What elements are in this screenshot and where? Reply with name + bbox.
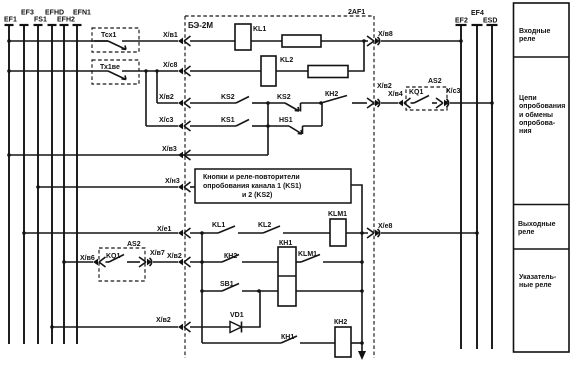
svg-text:Х/в2: Х/в2 [377,83,392,90]
row6 wire from FS1 [36,185,178,189]
switch Tx1ve dashed box [92,60,178,84]
connector X/v3 [162,146,191,160]
row4 wire [146,125,178,127]
svg-text:EF3: EF3 [21,10,34,17]
svg-text:Х/в2: Х/в2 [156,317,171,324]
svg-text:KL1: KL1 [212,222,225,229]
connector X/c8 [163,62,191,76]
wire to ESD [450,101,494,105]
bus FS1 [34,17,47,345]
junction row4 [266,124,270,128]
wire KL1 to R1 [251,40,282,42]
svg-text:Тх1ве: Тх1ве [100,64,120,71]
connector X/v2 row3 [159,94,191,108]
svg-text:AS2: AS2 [127,241,141,248]
connector X/v2 row10 [156,317,191,332]
row9 contact SB1 [200,281,278,293]
bus EF2 [455,17,468,349]
svg-text:ния: ния [519,128,532,135]
contact KH2 row8 [222,253,278,262]
wire to KS1 [190,125,236,127]
wire to node [190,260,222,264]
svg-text:KL1: KL1 [253,26,266,33]
note box buttons and repeaters [195,169,351,203]
svg-text:Х/в7: Х/в7 [150,250,165,257]
row7 wire from EF3 [22,231,178,235]
svg-text:EFN1: EFN1 [73,10,91,17]
svg-text:Х/в2: Х/в2 [167,253,182,260]
svg-text:реле: реле [518,229,535,236]
wire row2 to KL2 [190,70,261,72]
svg-text:Х/в6: Х/в6 [80,255,95,262]
svg-text:AS2: AS2 [428,78,442,85]
relay coil KL1 [235,24,266,50]
bus EFN1 [73,10,92,345]
block BE-2M dashed border [185,16,374,358]
svg-text:2AF1: 2AF1 [348,9,365,16]
svg-text:KL2: KL2 [280,57,293,64]
wire KLM1 to connector [346,231,368,235]
svg-text:Х/е8: Х/е8 [378,223,393,230]
contact KQ1 right [409,89,437,103]
bus EF3 [20,10,34,345]
svg-text:КН2: КН2 [334,319,347,326]
svg-text:EF2: EF2 [455,17,468,24]
wire to node [190,231,218,235]
connector X/v2 exit row3 [367,83,392,108]
connector X/v1 [163,32,191,46]
connector X/v7 [139,250,165,267]
wire to EF4 [381,231,479,235]
connector X/n3 [165,178,191,192]
wire to border connector [153,261,178,263]
wire KH2 coil to down bus [351,341,364,345]
svg-text:Входные: Входные [519,28,551,35]
wire KL2 to R2 [276,70,308,72]
svg-text:FS1: FS1 [34,17,47,24]
relay coil KH2 [334,319,351,357]
svg-text:Цепи: Цепи [519,95,537,102]
bus EFH2 [57,17,75,345]
relay coil KLM1 [328,211,347,246]
svg-text:Х/н3: Х/н3 [165,178,180,185]
svg-text:опробования канала 1 (KS1): опробования канала 1 (KS1) [203,182,301,190]
svg-text:КН1: КН1 [279,240,292,247]
vertical from row2 to row3 [156,71,158,103]
resistor R1 [282,35,321,47]
row11 wire to KH1 contact [202,342,281,344]
vertical from row2 to row4 [145,71,147,126]
svg-text:Указатель-: Указатель- [519,274,557,281]
bus EF1 [4,17,17,345]
svg-text:опробования: опробования [519,102,565,110]
wire VD1 up to SB1 row [242,291,261,327]
svg-text:KL2: KL2 [258,222,271,229]
row2 wire from EF1 [7,69,108,73]
svg-text:Х/в4: Х/в4 [388,91,403,98]
wire to X/v4 [381,102,398,104]
svg-text:EFH2: EFH2 [57,17,75,24]
resistor R2 [308,66,348,78]
svg-text:KQ1: KQ1 [409,89,424,96]
svg-text:EF4: EF4 [471,10,484,17]
svg-text:KLM1: KLM1 [328,211,347,218]
svg-text:и обмены: и обмены [519,111,553,119]
bus ESD [483,17,498,349]
bus EF4 [471,10,484,349]
svg-text:KS1: KS1 [221,117,235,124]
contact KS2 second [268,94,321,112]
arrow down [358,351,366,360]
block AS2 right dashed box [406,78,447,110]
svg-text:Х/с3: Х/с3 [446,88,461,95]
wire to KS2 [190,102,236,104]
svg-text:Х/в8: Х/в8 [378,31,393,38]
connector X/e1 [157,226,191,238]
svg-text:опробова-: опробова- [519,119,556,127]
wire HS1 up to row3 [321,103,323,126]
svg-text:ные реле: ные реле [519,282,552,289]
connector X/v6 [80,255,106,267]
vertical feed line left [201,233,203,343]
wire to EF2 [381,39,463,43]
row1 wire from EF1 [7,39,108,43]
contact KQ1 left [106,253,141,262]
wire row1 to KL1 [190,40,235,42]
connector X/c3 [436,88,461,108]
wire to note box [190,186,195,188]
svg-text:EF1: EF1 [4,17,17,24]
node B junction [319,101,323,105]
row3 wire [157,102,178,104]
svg-text:ESD: ESD [483,17,497,24]
contact HS1 [268,117,322,134]
contact KL1 [212,222,263,233]
svg-text:Кнопки и реле-повторители: Кнопки и реле-повторители [203,174,300,181]
svg-text:БЭ-2М: БЭ-2М [188,21,213,30]
wire R1 to connector [321,39,368,42]
relay coil KH1 two sections [278,240,296,306]
row10 wire from EFHD [50,325,178,329]
row8 wire from EFH2 [62,260,93,264]
svg-text:Х/с3: Х/с3 [159,117,174,124]
contact KS2 first [221,94,268,103]
svg-text:Тсх1: Тсх1 [101,32,117,39]
svg-text:Х/с8: Х/с8 [163,62,178,69]
svg-text:Выходные: Выходные [518,221,556,228]
svg-text:КН2: КН2 [325,91,338,98]
contact KS1 [221,117,268,126]
wire R2 up to row1 [348,41,364,71]
switch Tcx1 dashed box [92,28,178,52]
contact KH1 [281,334,335,343]
svg-text:реле: реле [519,36,536,43]
svg-text:KS2: KS2 [221,94,235,101]
connector X/e8 [367,223,393,238]
wire to VD1 [190,326,230,328]
contact KLM1 [296,251,364,264]
block AS2 left dashed box [99,241,145,281]
connector X/v4 [388,91,411,108]
svg-text:Х/в1: Х/в1 [163,32,178,39]
svg-text:EFHD: EFHD [45,10,64,17]
diode VD1 [230,312,244,333]
contact KL2 [258,222,330,233]
wire note box to down bus [351,185,362,352]
svg-text:Х/е1: Х/е1 [157,226,172,233]
row5 wire from EF1 [7,153,268,157]
vertical node A row3-row5 [267,103,269,155]
junction row2 branches [144,69,158,72]
svg-text:НS1: НS1 [279,117,293,124]
connector X/c3 row4 [159,117,191,131]
svg-text:Х/в3: Х/в3 [162,146,177,153]
node row3/row4 junction [266,101,270,105]
right legend column [514,3,570,352]
relay coil KL2 [261,56,293,86]
svg-text:и 2 (KS2): и 2 (KS2) [242,192,272,199]
wire KH1 lower to bus [296,289,364,293]
connector X/v8 top [367,31,393,46]
connector X/v2 row8 [167,253,191,267]
bus EFHD [45,10,64,345]
contact KH2 row3 [321,91,367,103]
svg-text:Х/в2: Х/в2 [159,94,174,101]
svg-text:KS2: KS2 [277,94,291,101]
svg-text:VD1: VD1 [230,312,244,319]
